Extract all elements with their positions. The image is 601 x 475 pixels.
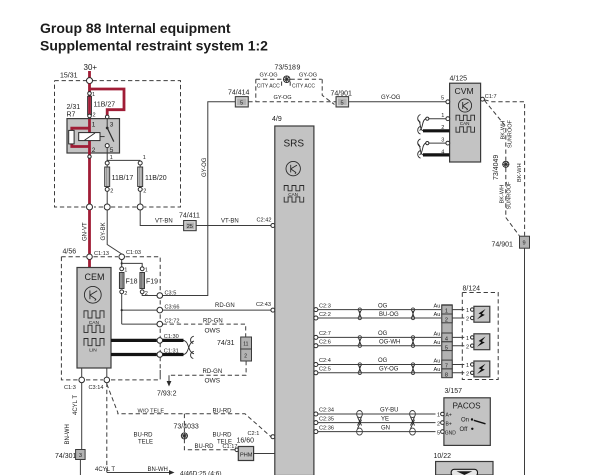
dashed OWS return wire (169, 361, 246, 384)
svg-text:3: 3 (79, 453, 82, 459)
svg-text:CVM: CVM (455, 86, 474, 96)
connector strip Au pins (442, 305, 452, 379)
svg-text:RD-GN: RD-GN (203, 369, 223, 375)
CVM pin 5 (441, 95, 450, 103)
svg-text:RD-GN: RD-GN (215, 303, 235, 309)
svg-text:C2:43: C2:43 (256, 302, 271, 308)
svg-text:7/93:2: 7/93:2 (157, 391, 177, 398)
svg-text:A+: A+ (446, 413, 452, 419)
svg-text:GN: GN (381, 425, 390, 431)
svg-text:4/125: 4/125 (450, 75, 468, 82)
pin C1:30 thick CAN wire (111, 334, 194, 354)
wire GY-BK to C1:03 (101, 210, 122, 254)
svg-text:SUNROOF: SUNROOF (506, 181, 512, 210)
wire squib pair 3 C2:4 C2:5 (314, 358, 441, 375)
svg-text:PACOS: PACOS (453, 401, 482, 410)
svg-text:BK-WH: BK-WH (501, 121, 507, 140)
svg-text:2: 2 (145, 291, 148, 297)
svg-text:74/411: 74/411 (179, 213, 200, 220)
dashed wire sunroof lower (499, 168, 519, 236)
svg-text:Supplemental restraint system: Supplemental restraint system 1:2 (40, 37, 268, 53)
pin C3:66 and wire RD-GN to SRS C2:43 (157, 302, 275, 313)
svg-text:CAN: CAN (89, 320, 100, 326)
svg-text:8/124: 8/124 (463, 286, 481, 293)
dashed wire BU-RD to PHM (184, 439, 238, 452)
svg-text:Au: Au (434, 312, 441, 318)
svg-text:2: 2 (466, 371, 469, 377)
svg-text:BU-RD: BU-RD (213, 432, 233, 438)
svg-text:C3:14: C3:14 (89, 385, 104, 391)
svg-text:GY-OG: GY-OG (260, 72, 278, 78)
svg-text:16/60: 16/60 (237, 438, 255, 445)
node 30+ supply (84, 63, 98, 78)
squib group 8/124 (462, 286, 498, 380)
wire red into CEM (88, 260, 91, 268)
junction 73/4033 (134, 414, 233, 446)
control unit symbol (286, 161, 300, 175)
svg-text:1: 1 (437, 413, 440, 419)
CEM box (77, 268, 111, 369)
svg-text:C2:36: C2:36 (319, 425, 334, 431)
relay 2/31 R7 (67, 104, 120, 154)
svg-text:GY-OG: GY-OG (381, 95, 401, 101)
connector 74/901 right (492, 236, 530, 248)
module PHM 16/60 (237, 438, 275, 461)
pin C3:5 (157, 291, 176, 299)
wire squib pair 1 C2:3 C2:2 (314, 303, 441, 320)
wire BN-WH 4CYL T to 74/301 (65, 383, 82, 450)
svg-text:OG: OG (378, 358, 388, 364)
svg-text:C2:7: C2:7 (319, 331, 331, 337)
svg-text:5: 5 (441, 95, 444, 101)
svg-text:1: 1 (143, 155, 146, 161)
dashed wire GY-OG 74/414 to 74/901 (248, 95, 335, 102)
svg-text:TELE: TELE (138, 439, 153, 445)
svg-text:RD-GN: RD-GN (203, 318, 223, 324)
wire PACOS group C2:34 C2:35 C2:36 (314, 408, 441, 435)
svg-text:B+: B+ (446, 421, 452, 427)
svg-text:2: 2 (244, 353, 247, 359)
svg-text:Off: Off (460, 427, 468, 433)
svg-text:2: 2 (93, 113, 96, 119)
connector 74/301 (55, 450, 85, 475)
svg-text:4/9: 4/9 (272, 116, 282, 123)
svg-text:GY-OG: GY-OG (299, 72, 317, 78)
svg-text:15/31: 15/31 (60, 73, 78, 80)
pin 2 B+ (436, 419, 443, 427)
svg-text:9: 9 (297, 64, 301, 71)
svg-text:BU-OG: BU-OG (379, 312, 399, 318)
svg-text:11B/27: 11B/27 (94, 102, 116, 109)
wire battery feed to fuse 11B/27 (88, 84, 91, 119)
svg-text:1: 1 (110, 155, 113, 161)
connector 74/411 (179, 213, 200, 231)
svg-text:CITY ACC: CITY ACC (292, 83, 315, 89)
connector 74/901 top (331, 90, 353, 107)
svg-text:5: 5 (341, 100, 344, 106)
svg-text:GY-OG: GY-OG (202, 157, 208, 177)
wire relay out red (88, 153, 91, 204)
svg-text:11B/17: 11B/17 (112, 175, 134, 182)
svg-text:5: 5 (240, 100, 243, 106)
pin 1 A+ (436, 411, 443, 419)
svg-text:On: On (461, 417, 469, 423)
svg-text:SRS: SRS (284, 139, 305, 150)
switch PACOS 3/157 (436, 388, 491, 445)
wire to bottom right (524, 248, 526, 475)
svg-text:1: 1 (466, 363, 469, 369)
module SRS 4/9 (272, 116, 314, 475)
dashed wire W/O TELE to SRS C2:1 (107, 384, 275, 439)
dashed wire BK-WH direct to 74/901 (484, 100, 524, 236)
svg-text:25: 25 (187, 224, 193, 230)
svg-text:Au: Au (434, 331, 441, 337)
svg-text:C1:3: C1:3 (64, 385, 76, 391)
junction 73/4049 (493, 155, 509, 180)
svg-text:R7: R7 (67, 112, 76, 119)
pin C1:3 (64, 368, 84, 391)
dashed enclosure 15/31 (55, 73, 181, 208)
CAN symbol (284, 186, 304, 203)
svg-text:C2:5: C2:5 (319, 367, 331, 373)
svg-text:BU-RD: BU-RD (213, 409, 233, 415)
svg-text:Au: Au (434, 340, 441, 346)
svg-text:74/31: 74/31 (217, 340, 235, 347)
fuse 11B/17 (105, 161, 134, 204)
wire GN-VT red to CEM (82, 210, 89, 254)
svg-text:1: 1 (466, 308, 469, 314)
squib unit 3 (474, 361, 490, 377)
svg-text:BU-RD: BU-RD (195, 444, 215, 450)
svg-text:PHM: PHM (240, 453, 253, 459)
svg-text:3: 3 (110, 122, 114, 129)
svg-text:GY-BU: GY-BU (380, 408, 398, 414)
svg-text:BK-WH: BK-WH (517, 163, 523, 182)
svg-text:LIN: LIN (89, 347, 97, 353)
svg-text:OWS: OWS (205, 377, 221, 384)
dashed wire BK-WH SUNROOF via 73/4049 (484, 100, 513, 160)
svg-text:C2:35: C2:35 (319, 416, 334, 422)
wire VT-BN to SRS C2:42 (196, 217, 275, 227)
svg-text:C1:03: C1:03 (126, 250, 141, 256)
svg-text:C3:5: C3:5 (165, 291, 177, 297)
svg-text:3: 3 (441, 137, 444, 143)
wire red through relay coil (88, 119, 91, 153)
svg-text:1: 1 (92, 92, 95, 98)
svg-text:2: 2 (466, 344, 469, 350)
twist symbols pair 3 (358, 363, 361, 366)
svg-text:GY-OG: GY-OG (379, 367, 399, 373)
svg-text:OG: OG (378, 331, 388, 337)
svg-text:F18: F18 (126, 279, 138, 286)
svg-text:C1:13: C1:13 (94, 251, 109, 257)
CVM pin 1 twisted stub (418, 113, 450, 131)
svg-text:OG: OG (378, 303, 388, 309)
svg-text:2/31: 2/31 (67, 104, 81, 111)
contact arm (106, 119, 108, 127)
dashed connector boundary CEM (61, 257, 160, 380)
svg-text:W/O TELE: W/O TELE (138, 409, 165, 415)
svg-text:10/22: 10/22 (434, 453, 452, 460)
CAN symbol (84, 311, 104, 333)
svg-text:5: 5 (110, 147, 114, 154)
svg-text:30+: 30+ (84, 63, 98, 72)
pin C1:03 (119, 254, 125, 260)
connector 74/414 (228, 89, 250, 107)
title (40, 20, 268, 53)
svg-text:73/4049: 73/4049 (493, 155, 500, 180)
pin C3:14 (89, 368, 110, 391)
svg-text:74/901: 74/901 (492, 242, 514, 249)
svg-text:C2:42: C2:42 (257, 217, 272, 223)
svg-text:8: 8 (445, 372, 448, 378)
svg-text:5: 5 (437, 430, 440, 436)
module CVM 4/125 (450, 75, 481, 162)
svg-text:Au: Au (434, 358, 441, 364)
connector 74/31 (217, 337, 252, 361)
svg-text:CEM: CEM (85, 272, 105, 282)
svg-text:OWS: OWS (205, 327, 221, 334)
control unit symbol (84, 286, 101, 303)
squib unit 1 (474, 306, 490, 322)
svg-text:YE: YE (381, 416, 389, 422)
coil body (79, 133, 100, 141)
coil terminal bar (69, 130, 74, 144)
svg-text:9: 9 (523, 241, 526, 247)
svg-text:C2:34: C2:34 (319, 408, 334, 414)
svg-text:2: 2 (110, 189, 113, 195)
pin C1:31 thick CAN wire (111, 341, 194, 358)
wire relay pin5 to fuses (107, 153, 146, 161)
svg-text:4/56: 4/56 (63, 249, 77, 256)
pin 5 GND (436, 428, 443, 436)
svg-text:C2:3: C2:3 (319, 303, 331, 309)
svg-text:OG-WH: OG-WH (379, 340, 400, 346)
node junction 30+ (87, 78, 93, 84)
wire squib pair 2 C2:7 C2:6 (314, 331, 441, 348)
module CEM 4/56 (61, 249, 160, 380)
svg-text:73/4033: 73/4033 (174, 423, 199, 430)
svg-text:1: 1 (466, 336, 469, 342)
svg-text:2: 2 (437, 421, 440, 427)
svg-text:GY-OG: GY-OG (274, 95, 292, 101)
svg-text:2: 2 (92, 147, 96, 154)
CVM pin 2 thick stub (418, 120, 450, 135)
squib 3 wires (452, 361, 474, 377)
svg-text:2: 2 (124, 291, 127, 297)
svg-text:VT-BN: VT-BN (221, 218, 239, 224)
svg-text:2: 2 (466, 317, 469, 323)
svg-text:CAN: CAN (460, 121, 470, 126)
wire GY-OG to CVM pin 5 (349, 95, 446, 102)
svg-text:4/46D:25 (4:6): 4/46D:25 (4:6) (180, 471, 222, 475)
twist symbols pair 2 (358, 336, 361, 339)
svg-text:73/518: 73/518 (275, 64, 297, 71)
svg-text:BN-WH: BN-WH (148, 467, 168, 473)
LIN symbol (84, 339, 104, 346)
squib 2 wires (452, 334, 474, 350)
squib unit 2 (474, 334, 490, 350)
svg-text:BN-WH: BN-WH (65, 424, 71, 444)
svg-text:5: 5 (445, 345, 448, 351)
wire GY-OG vertical from 74/414 to CEM C3:5 (163, 102, 236, 296)
svg-text:VT-BN: VT-BN (155, 218, 173, 224)
svg-text:1: 1 (441, 113, 444, 119)
arrow to 7/93:2 (157, 375, 177, 397)
svg-text:4CYL T: 4CYL T (73, 395, 79, 415)
CAN symbol (456, 115, 475, 132)
svg-text:BK-WH: BK-WH (499, 185, 505, 204)
svg-text:4CYL T: 4CYL T (95, 467, 115, 473)
pin C1:13 (87, 254, 93, 260)
squib 1 wires (452, 306, 474, 323)
CVM pin 4 thick stub (418, 144, 450, 159)
svg-text:GN-VT: GN-VT (82, 222, 88, 241)
svg-text:74/414: 74/414 (228, 89, 250, 96)
svg-text:1: 1 (124, 268, 127, 274)
fuse F18 internal (119, 260, 157, 325)
control unit symbol (458, 99, 471, 112)
junction 73/5189 CITY ACC (256, 64, 335, 104)
svg-text:2: 2 (445, 318, 448, 324)
wire from C3:14 down (95, 383, 222, 475)
twist symbols PACOS (357, 411, 363, 418)
svg-text:11B/20: 11B/20 (145, 175, 167, 182)
svg-text:11: 11 (243, 341, 248, 347)
svg-text:C1:7: C1:7 (485, 94, 497, 100)
fuse F19 internal (140, 267, 158, 297)
svg-text:CITY ACC: CITY ACC (257, 83, 280, 89)
svg-text:C2:1: C2:1 (248, 431, 260, 437)
svg-text:GND: GND (445, 430, 457, 436)
node circles on 15/31 box bottom (87, 204, 144, 210)
fuse 11B/20 (138, 161, 167, 204)
fuse 11B/27 (88, 92, 116, 119)
svg-text:SUNROOF: SUNROOF (507, 119, 513, 148)
wire 30+ feed (88, 71, 91, 78)
module 10/22 (434, 453, 494, 475)
svg-text:C2:6: C2:6 (319, 340, 331, 346)
twist symbols pair 1 (358, 308, 361, 311)
CVM pin 3 twisted stub (418, 137, 450, 155)
svg-text:3/157: 3/157 (445, 388, 463, 395)
svg-text:BU-RD: BU-RD (134, 432, 154, 438)
svg-text:Au: Au (434, 367, 441, 373)
svg-text:1: 1 (145, 268, 148, 274)
wire red loop to relay pin 3 (90, 89, 125, 115)
svg-text:2: 2 (143, 189, 146, 195)
pin C2:72 and dashed OWS wire (157, 318, 246, 336)
CVM pin C1:7 (481, 94, 497, 101)
svg-text:F19: F19 (146, 279, 158, 286)
svg-text:Au: Au (434, 304, 441, 310)
svg-text:74/301: 74/301 (55, 453, 77, 460)
wire VT-BN to 74/411 (140, 210, 183, 226)
svg-text:C2:2: C2:2 (319, 312, 331, 318)
svg-text:GY-BK: GY-BK (101, 222, 107, 240)
svg-text:C2:4: C2:4 (319, 358, 331, 364)
svg-text:CAN: CAN (288, 192, 298, 197)
svg-text:1: 1 (92, 122, 96, 129)
svg-text:Group 88 Internal equipment: Group 88 Internal equipment (40, 20, 231, 36)
